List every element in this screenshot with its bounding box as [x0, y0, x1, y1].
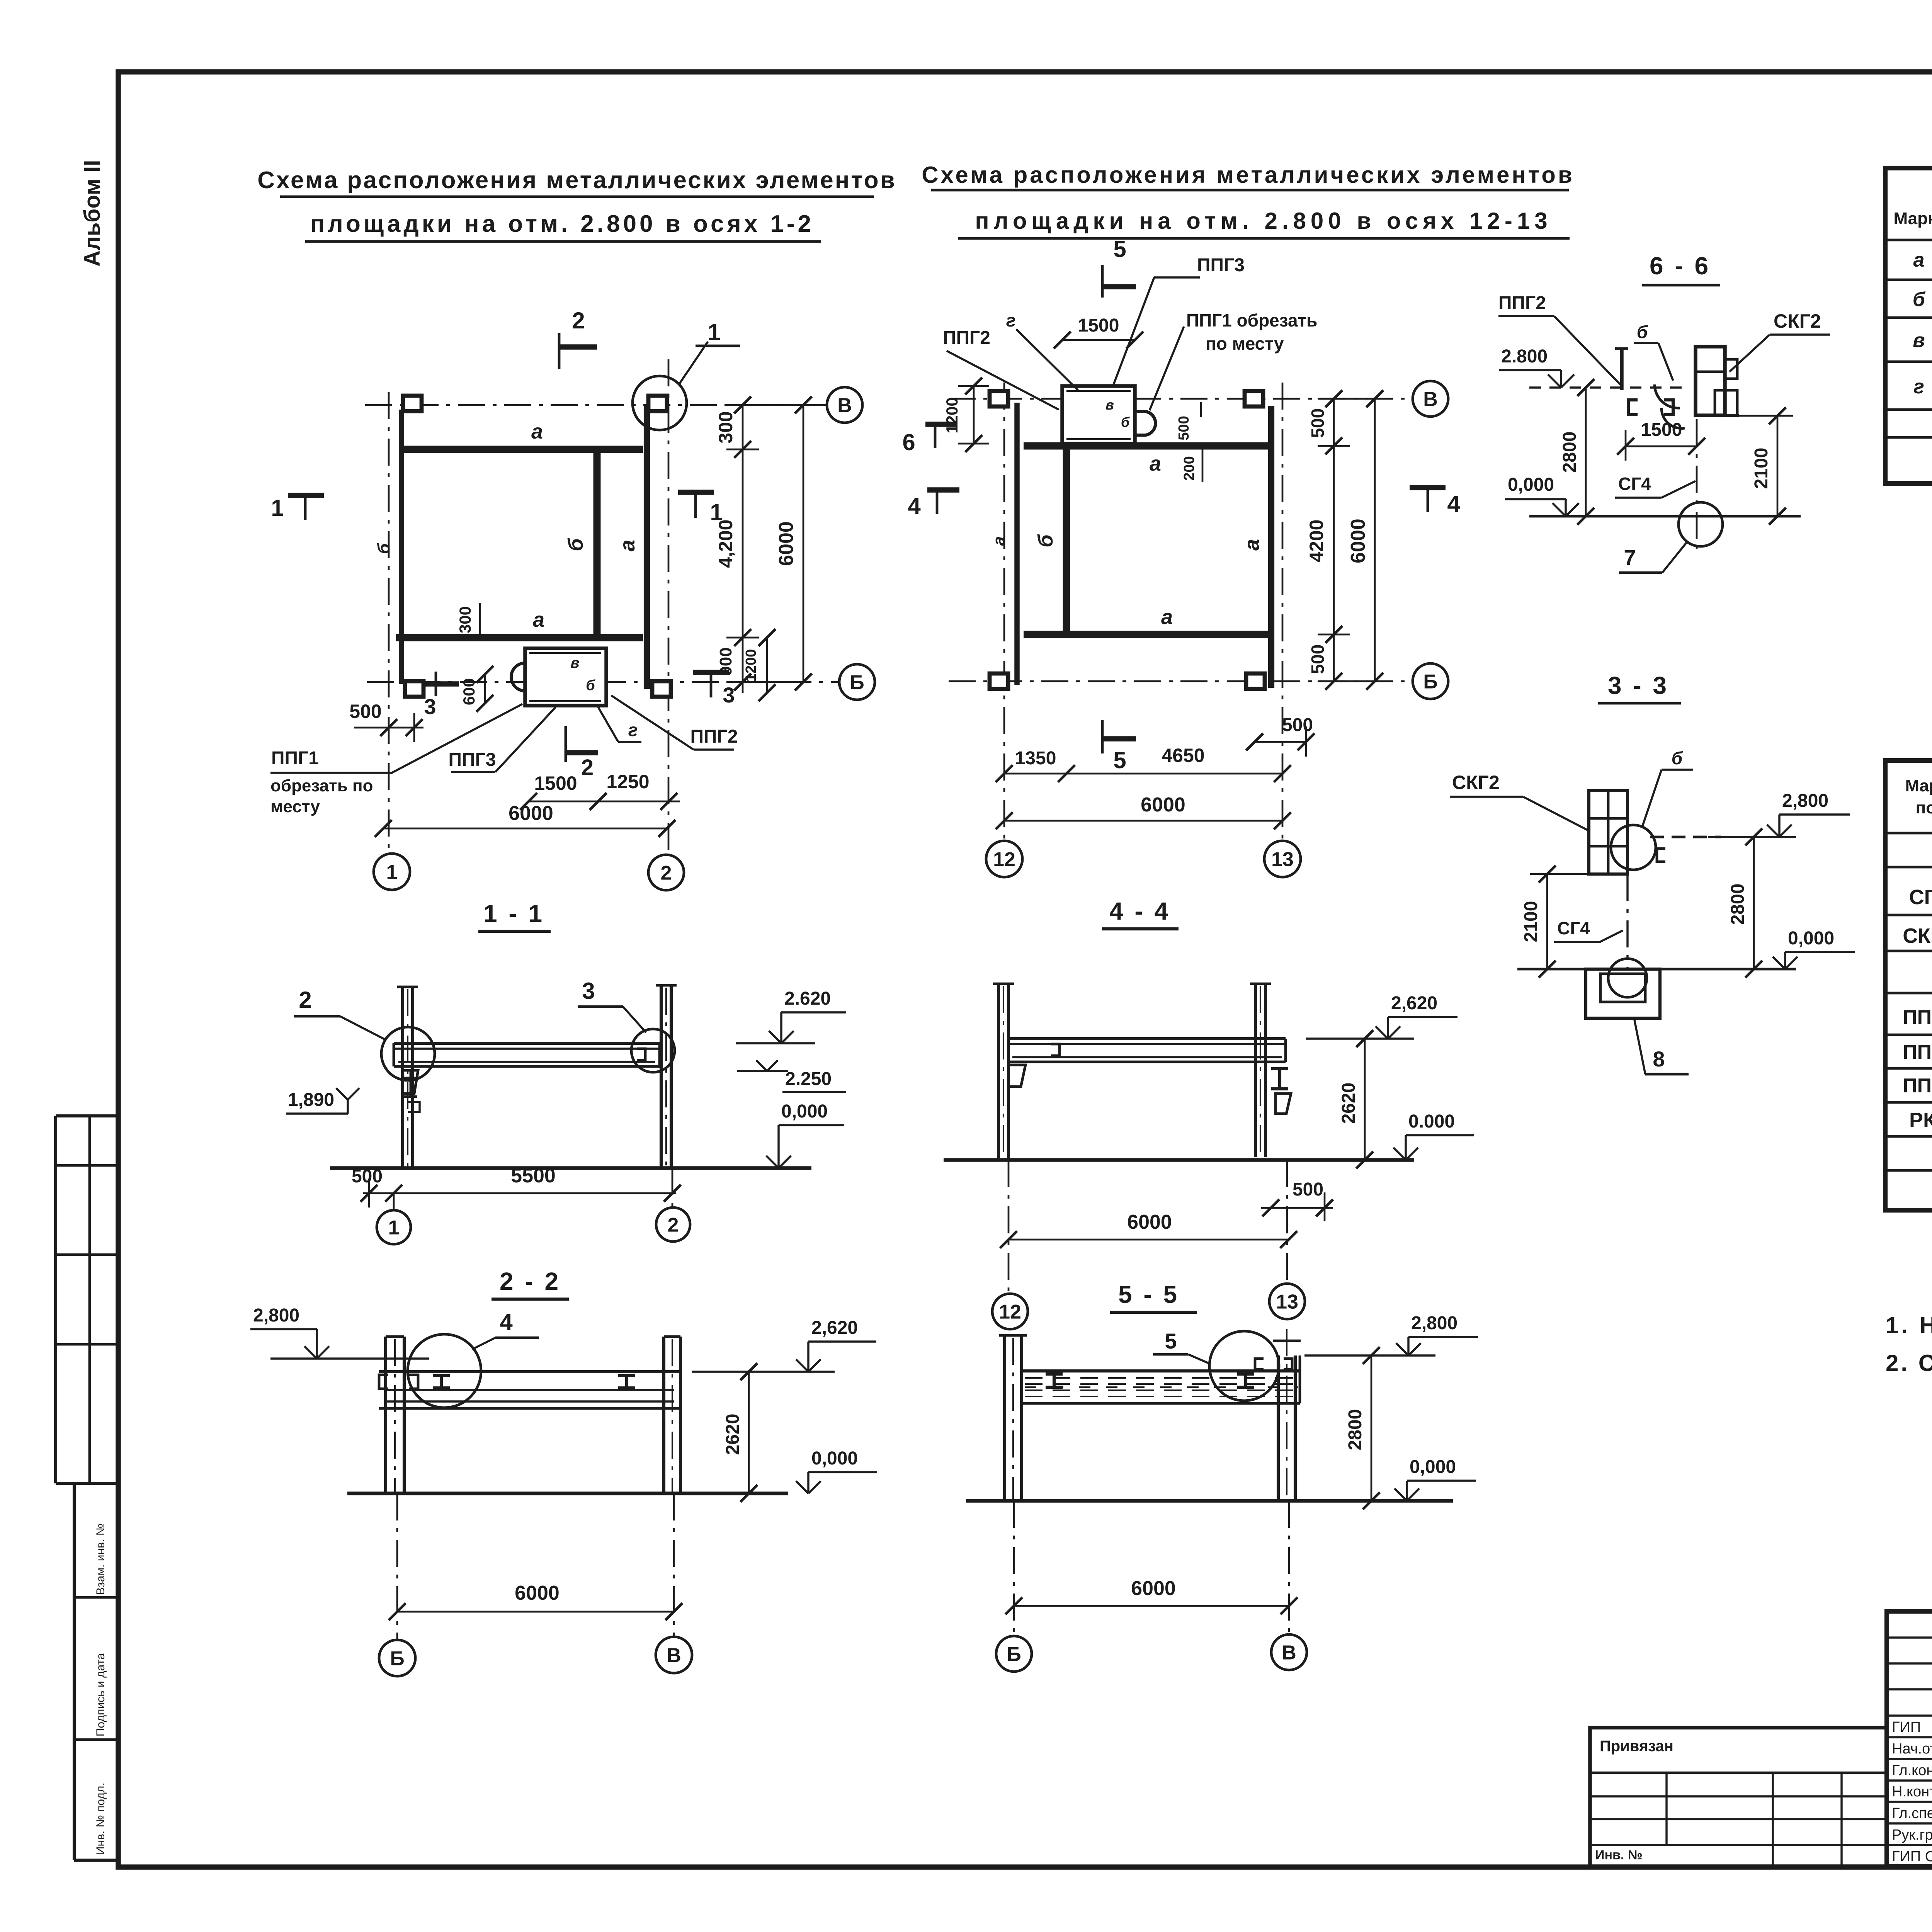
svg-text:0,000: 0,000 — [781, 1101, 828, 1122]
section 1-1: console РК1 under left deck end — [403, 1070, 418, 1094]
section 2-2: deck I-beam (right) — [618, 1376, 635, 1388]
svg-text:РК 1: РК 1 — [1909, 1109, 1932, 1132]
section 2-2: platform deck — [379, 1370, 679, 1373]
plan 12-13: axis line 13 — [1282, 383, 1284, 842]
plan 1-2: column at 2/Б — [652, 681, 671, 697]
section 1-1: channel end at right deck — [637, 1049, 645, 1060]
svg-text:Взам. инв. №: Взам. инв. № — [94, 1523, 107, 1595]
section 1-1: axis bubble 1 — [393, 1193, 395, 1209]
svg-text:5500: 5500 — [511, 1165, 556, 1187]
plan 12-13: section mark 5 (bottom) — [1101, 720, 1104, 753]
svg-text:а: а — [1150, 452, 1161, 475]
plan 12-13: leader ППГ1 обрезать по месту — [1150, 327, 1184, 410]
section 6-6: deck edge arc — [1655, 384, 1680, 408]
svg-text:СГ4: СГ4 — [1618, 474, 1651, 494]
svg-text:2 - 2: 2 - 2 — [500, 1267, 561, 1295]
section 3-3: footing outer — [1586, 969, 1660, 1018]
svg-text:В: В — [837, 395, 852, 417]
section 2-2: left column — [384, 1337, 387, 1493]
svg-text:2,800: 2,800 — [1411, 1313, 1458, 1333]
section 3-3: footing inner — [1600, 974, 1645, 1002]
svg-text:а: а — [1913, 249, 1925, 271]
plan 1-2: left railing line — [399, 410, 404, 684]
section 3-3: beam dashes at level 2.800 — [1650, 836, 1721, 838]
section 1-1: right column — [660, 985, 663, 1168]
plan 1-2: leader ППГ1 обрезать по месту — [392, 704, 522, 773]
svg-text:а: а — [1240, 539, 1264, 551]
plan 12-13: dim 1200 (left) — [973, 386, 975, 444]
section 1-1: platform deck — [394, 1042, 660, 1045]
svg-text:Привязан: Привязан — [1600, 1738, 1673, 1755]
plan 12-13: axis line Б — [949, 680, 1413, 682]
svg-text:1: 1 — [388, 1217, 400, 1239]
specification table: horizontal rules — [1885, 832, 1932, 835]
section 1-1: level mark 2.250 (right) — [737, 1070, 788, 1072]
plan 12-13: axis bubble 13 — [1264, 841, 1301, 877]
svg-text:Схема расположения металлическ: Схема расположения металлических элемент… — [922, 162, 1575, 188]
svg-text:Нач.отд.: Нач.отд. — [1892, 1741, 1932, 1757]
section 4-4: dim 2620 — [1364, 1039, 1366, 1160]
section 4-4: dim 500 (below right column) — [1261, 1207, 1333, 1209]
section 4-4: axis bubble 12 — [1008, 1160, 1010, 1293]
svg-text:Инв. №: Инв. № — [1595, 1848, 1643, 1862]
plan 12-13: axis bubble В — [1413, 381, 1448, 417]
svg-text:0,000: 0,000 — [1788, 928, 1834, 949]
section 6-6: ground level line — [1529, 515, 1801, 518]
svg-text:обрезать по: обрезать по — [270, 776, 373, 795]
plan 12-13: axis line 12 — [1003, 383, 1005, 842]
svg-text:Подпись и дата: Подпись и дата — [94, 1653, 107, 1736]
svg-text:6000: 6000 — [515, 1582, 560, 1604]
svg-text:2,800: 2,800 — [253, 1305, 299, 1326]
plan 1-2: dim line 6000 (right outer, В-Б) — [803, 405, 804, 682]
svg-text:500: 500 — [1293, 1179, 1323, 1200]
section 4-4: deck channel at left end — [1051, 1044, 1060, 1056]
svg-text:2100: 2100 — [1751, 448, 1772, 489]
section 2-2: dim 2620 — [748, 1372, 750, 1493]
svg-text:4,200: 4,200 — [715, 519, 736, 568]
svg-text:а: а — [533, 608, 544, 631]
svg-text:7: 7 — [1624, 545, 1636, 570]
section 5-5: callout circle 5 — [1209, 1331, 1279, 1401]
svg-text:6: 6 — [902, 429, 915, 455]
svg-text:Б: Б — [850, 672, 864, 694]
svg-text:1250: 1250 — [606, 771, 649, 793]
section 6-6: dim 1500 — [1626, 446, 1697, 447]
svg-text:Б: Б — [1007, 1643, 1021, 1666]
plan 12-13: right dim line 6000 — [1374, 399, 1376, 681]
section 3-3: dim 2100 (left) — [1546, 874, 1548, 969]
svg-text:Марка: Марка — [1893, 209, 1932, 228]
plan 12-13: platform plate (hatched) with manhole — [1062, 386, 1135, 444]
svg-text:б: б — [1913, 288, 1926, 311]
svg-text:б: б — [1034, 534, 1057, 548]
svg-text:1 - 1: 1 - 1 — [483, 900, 544, 927]
svg-text:по месту: по месту — [1206, 333, 1284, 354]
section 6-6: platform level line (dashed) — [1529, 386, 1689, 388]
svg-text:а: а — [1161, 605, 1173, 629]
svg-text:500: 500 — [1308, 408, 1328, 438]
svg-text:а: а — [616, 540, 639, 551]
section 2-2: rail channel on left column — [379, 1375, 388, 1389]
svg-text:2,800: 2,800 — [1782, 791, 1828, 811]
section 5-5: axis bubble Б — [1013, 1501, 1015, 1636]
plan 1-2: column at 1/В — [403, 396, 422, 411]
section 2-2: callout circle 4 — [408, 1334, 481, 1408]
svg-text:1,890: 1,890 — [288, 1090, 334, 1110]
svg-text:6000: 6000 — [1131, 1577, 1176, 1600]
section 2-2: axis bubble В — [673, 1493, 675, 1637]
plan 1-2: column at 2/В — [648, 396, 667, 411]
svg-text:1: 1 — [707, 319, 720, 345]
svg-text:Гл.констр: Гл.констр — [1892, 1762, 1932, 1779]
svg-text:1350: 1350 — [1015, 748, 1056, 769]
section 5-5: dim 2800 — [1371, 1355, 1372, 1501]
svg-text:2800: 2800 — [1728, 884, 1748, 925]
svg-text:6000: 6000 — [1347, 519, 1369, 563]
svg-text:6000: 6000 — [509, 802, 553, 825]
plan 1-2: leader г — [598, 707, 618, 742]
svg-text:4 - 4: 4 - 4 — [1109, 897, 1170, 925]
svg-text:ППГ3: ППГ3 — [1197, 255, 1245, 276]
section 1-1: callout circle 2 (left) — [381, 1027, 435, 1080]
specification table: outer border — [1885, 760, 1932, 1210]
svg-text:поз: поз — [1916, 798, 1932, 817]
section 2-2: ground line — [347, 1492, 788, 1495]
svg-text:500: 500 — [1308, 645, 1328, 674]
plan 1-2: axis line 1 (vertical) — [388, 392, 390, 855]
section 4-4: platform deck — [1009, 1037, 1286, 1040]
plan 12-13: leader ППГ3 (top) — [1113, 277, 1154, 386]
svg-text:0,000: 0,000 — [1508, 474, 1554, 495]
left margin vertical stamp box (Взам.инв / Подпись и дата / Инв.N подл.) — [74, 1482, 118, 1485]
svg-text:1: 1 — [386, 861, 398, 884]
svg-text:5: 5 — [1113, 236, 1126, 262]
plan 12-13: beam б (vertical) — [1063, 448, 1070, 634]
plan 1-2: axis bubble 1 — [374, 854, 410, 890]
section 5-5: top rail channels at right end — [1255, 1359, 1264, 1369]
svg-text:б: б — [1637, 322, 1648, 342]
svg-text:Инв. № подл.: Инв. № подл. — [94, 1782, 107, 1855]
section 2-2: right column — [662, 1337, 665, 1493]
section 1-1: dim 500/5500 — [363, 1192, 676, 1194]
svg-text:2620: 2620 — [1338, 1083, 1359, 1124]
title block left extension: Привязан box — [1590, 1728, 1887, 1866]
svg-text:а: а — [990, 536, 1009, 546]
svg-text:6000: 6000 — [775, 521, 798, 566]
svg-text:2. Общие указания даны на лист: 2. Общие указания даны на листе 1. — [1886, 1350, 1932, 1376]
svg-text:3: 3 — [582, 978, 595, 1004]
svg-text:площадки на отм. 2.800 в осях: площадки на отм. 2.800 в осях 12-13 — [975, 208, 1552, 234]
section 6-6: column with СКГ2 railing — [1696, 347, 1725, 415]
section 5-5: platform deck (hatched) — [1022, 1369, 1300, 1372]
svg-text:2.620: 2.620 — [784, 988, 831, 1009]
svg-text:ГИП: ГИП — [1892, 1719, 1921, 1735]
plan 12-13: left railing line — [1014, 403, 1020, 685]
section 1-1: callout circle 3 (right) — [631, 1029, 675, 1072]
svg-text:В: В — [1282, 1642, 1296, 1664]
svg-text:б: б — [374, 543, 393, 554]
plan 1-2: dim 1500 / 1250 (below detail) — [529, 801, 680, 803]
svg-text:Рук.гр.: Рук.гр. — [1892, 1827, 1932, 1843]
title block left extension: grid — [1590, 1795, 1887, 1797]
plan 12-13: column at 13/Б — [1246, 673, 1265, 689]
svg-text:0,000: 0,000 — [811, 1448, 858, 1469]
section 6-6: deck channel sections — [1628, 400, 1638, 415]
plan 1-2: axis bubble 2 — [648, 855, 684, 890]
svg-text:2800: 2800 — [1345, 1409, 1366, 1451]
svg-text:ППГ2: ППГ2 — [943, 328, 990, 348]
section 4-4: dim 6000 — [1009, 1239, 1289, 1241]
svg-text:месту: месту — [270, 797, 320, 816]
svg-text:СКГ2: СКГ2 — [1774, 310, 1821, 332]
svg-text:СГ 4: СГ 4 — [1909, 886, 1932, 909]
section 3-3: footing node circle 8 — [1608, 959, 1647, 997]
svg-text:б: б — [1121, 414, 1130, 430]
left margin small table — [56, 1114, 118, 1117]
plan 12-13: column at 13/В — [1245, 391, 1263, 406]
plan 1-2: detail callout circle 1 around column 2/В — [633, 376, 687, 430]
section 6-6: dim 2800 (left) — [1585, 388, 1587, 516]
svg-text:СКГ 2: СКГ 2 — [1903, 924, 1932, 947]
svg-text:В: В — [1423, 388, 1438, 411]
section 6-6: anchor node circle 7 — [1679, 502, 1723, 546]
section 1-1: ground line — [330, 1166, 811, 1170]
svg-text:600: 600 — [460, 678, 478, 705]
section 5-5: axis bubble В — [1288, 1501, 1290, 1634]
svg-text:ППГ 1: ППГ 1 — [1903, 1075, 1932, 1097]
svg-text:2.800: 2.800 — [1501, 346, 1548, 367]
svg-text:2800: 2800 — [1560, 432, 1580, 473]
svg-text:в: в — [1105, 397, 1114, 413]
svg-text:4: 4 — [500, 1309, 513, 1335]
section 4-4: console under left column — [1009, 1065, 1026, 1087]
svg-text:СГ4: СГ4 — [1557, 918, 1590, 938]
title block: signature rows (upper empty) — [1887, 1636, 1932, 1638]
plan 1-2: dim 500 (bottom left) — [354, 727, 423, 729]
plan 1-2: section mark 3 (right) — [693, 670, 729, 675]
plan 12-13: axis bubble Б — [1413, 663, 1448, 699]
plan 1-2: section mark 2 (bottom) — [565, 726, 567, 762]
svg-text:ППГ1: ППГ1 — [271, 748, 319, 769]
svg-text:1500: 1500 — [1078, 315, 1119, 336]
plan 12-13: column at 12/В — [990, 391, 1008, 406]
svg-text:4650: 4650 — [1162, 745, 1204, 766]
svg-text:2: 2 — [668, 1214, 679, 1236]
plan 1-2: platform plate г (hatched rect with manhole) — [525, 648, 606, 706]
svg-text:Б: Б — [1423, 671, 1437, 693]
plan 1-2: dim 600 at detail — [484, 674, 486, 703]
svg-text:Схема расположения металлическ: Схема расположения металлических элемент… — [257, 167, 896, 194]
svg-text:4: 4 — [1447, 491, 1460, 517]
plan 1-2: dim 300 at detail — [479, 603, 481, 638]
svg-text:500: 500 — [352, 1166, 383, 1187]
svg-text:8: 8 — [1653, 1047, 1665, 1071]
plan 1-2: axis line Б — [367, 681, 840, 683]
svg-text:б: б — [586, 677, 595, 694]
section 1-1: axis bubble 2 — [672, 1168, 673, 1206]
svg-text:300: 300 — [456, 606, 474, 633]
svg-text:4: 4 — [908, 493, 921, 519]
svg-text:СКГ2: СКГ2 — [1452, 772, 1500, 793]
svg-text:а: а — [531, 420, 543, 443]
svg-text:2100: 2100 — [1521, 901, 1541, 942]
plan 12-13: axis bubble 12 — [986, 841, 1022, 877]
section 4-4: axis bubble 13 — [1286, 1160, 1288, 1283]
section 5-5: left column — [1003, 1335, 1006, 1501]
svg-text:Марка: Марка — [1905, 776, 1932, 795]
svg-text:ППГ2: ППГ2 — [1498, 293, 1546, 313]
svg-text:ППГ 2: ППГ 2 — [1903, 1006, 1932, 1029]
svg-text:2620: 2620 — [723, 1414, 743, 1455]
section 3-3: dim 2800 — [1753, 837, 1755, 969]
svg-text:ППГ 3: ППГ 3 — [1903, 1041, 1932, 1063]
section 2-2: axis bubble Б — [396, 1493, 398, 1640]
svg-text:900: 900 — [716, 647, 735, 675]
svg-text:1500: 1500 — [534, 772, 577, 794]
plan 12-13: dim 1350 / 4650 (bottom) — [1004, 773, 1282, 775]
plan 1-2: section mark 1 (right) — [678, 490, 714, 495]
svg-text:3: 3 — [723, 683, 735, 707]
svg-text:500: 500 — [1176, 416, 1192, 440]
svg-text:ППГ3: ППГ3 — [449, 750, 496, 770]
section 5-5: ground line — [966, 1499, 1453, 1503]
title block: outer border — [1887, 1611, 1932, 1866]
plan 1-2: right railing line а — [644, 405, 650, 689]
section 4-4: console + I-beam at right overhang — [1271, 1069, 1288, 1089]
svg-text:1. Настоящий лист рассматриват: 1. Настоящий лист рассматривать совместн… — [1886, 1312, 1932, 1338]
svg-text:1200: 1200 — [743, 649, 759, 682]
svg-text:1: 1 — [271, 495, 284, 521]
svg-text:13: 13 — [1276, 1291, 1298, 1313]
svg-text:ППГ2: ППГ2 — [690, 726, 738, 747]
plan 12-13: column at 12/Б — [990, 673, 1008, 689]
svg-text:2: 2 — [299, 987, 311, 1013]
svg-text:2: 2 — [661, 862, 672, 884]
section 1-1: left column (elevation) — [401, 987, 404, 1168]
svg-text:4200: 4200 — [1306, 519, 1327, 562]
svg-text:в: в — [571, 655, 580, 671]
svg-text:ГИП С.: ГИП С. — [1892, 1849, 1932, 1865]
svg-text:6000: 6000 — [1127, 1211, 1172, 1233]
plan 1-2: dim 1200 (right inner, lower) — [766, 638, 768, 693]
section 3-3: ground line — [1517, 968, 1796, 971]
svg-text:0,000: 0,000 — [1410, 1457, 1456, 1477]
plan 12-13: dim 1500 (top) — [1062, 339, 1135, 341]
plan 12-13: beam а (top) — [1024, 442, 1270, 450]
elements list table: outer border — [1885, 168, 1932, 483]
plan 1-2: axis line 2 — [668, 359, 670, 855]
svg-text:б: б — [1672, 748, 1683, 768]
section 5-5: deck I-beam (left) — [1046, 1374, 1063, 1387]
svg-text:200: 200 — [1181, 456, 1197, 480]
svg-text:0.000: 0.000 — [1408, 1111, 1455, 1132]
section 4-4: left column — [997, 984, 1000, 1160]
plan 12-13: leader ППГ2 (left) — [947, 351, 1059, 410]
svg-text:6 - 6: 6 - 6 — [1650, 252, 1711, 280]
section 6-6: vertical axis of ladder (dash-dot) — [1696, 419, 1698, 549]
plan 1-2: leader ППГ3 — [495, 707, 556, 772]
plan 1-2: section mark 3 (left) — [435, 672, 437, 696]
plan 1-2: beam а (bottom) — [396, 634, 643, 641]
svg-text:г: г — [1913, 376, 1924, 398]
section 5-5: right column — [1277, 1355, 1280, 1501]
svg-text:5: 5 — [1113, 747, 1126, 773]
section 2-2: dim 6000 — [397, 1611, 674, 1613]
svg-text:Альбом II: Альбом II — [80, 160, 105, 267]
plan 12-13: right railing line — [1268, 406, 1274, 688]
plan 1-2: column at 1/Б — [405, 681, 423, 697]
svg-text:12: 12 — [999, 1301, 1021, 1323]
svg-text:5 - 5: 5 - 5 — [1118, 1281, 1179, 1308]
svg-text:Гл.спец.: Гл.спец. — [1892, 1805, 1932, 1821]
svg-text:12: 12 — [993, 849, 1015, 871]
plan 1-2: axis bubble Б — [839, 664, 875, 700]
svg-text:г: г — [628, 720, 638, 740]
plan 1-2: axis bubble В — [827, 387, 862, 423]
section 3-3: level line at 2.800 (right) — [1708, 836, 1796, 838]
svg-text:300: 300 — [715, 411, 736, 443]
svg-text:Н.контр.: Н.контр. — [1892, 1784, 1932, 1800]
plan 12-13: dim 500 (bottom right) — [1255, 741, 1306, 743]
title block: signature rows (names) — [1887, 1714, 1932, 1716]
plan 1-2: dim line 300/4200/900 (right inner) — [742, 405, 744, 693]
svg-text:500: 500 — [349, 701, 381, 722]
plan 12-13: axis line В — [949, 398, 1413, 400]
svg-text:1500: 1500 — [1641, 420, 1682, 440]
svg-text:3 - 3: 3 - 3 — [1608, 672, 1669, 699]
svg-text:2,620: 2,620 — [811, 1318, 858, 1338]
svg-text:2: 2 — [581, 755, 594, 780]
section 3-3: node circle at 2.800 — [1611, 825, 1656, 870]
plan 1-2: section mark 2 (top) — [558, 333, 561, 369]
plan 1-2: beam а (top) — [401, 446, 643, 453]
svg-text:1200: 1200 — [943, 397, 961, 433]
plan 1-2: dim 6000 (bottom) — [383, 828, 667, 830]
section 6-6: dim 2100 (right) — [1777, 416, 1779, 516]
svg-text:г: г — [1006, 310, 1016, 330]
section 6-6: railing post — [1620, 348, 1624, 390]
svg-text:2.250: 2.250 — [785, 1069, 832, 1089]
section 3-3: ladder СГ4 (grid) — [1589, 791, 1628, 874]
section 2-2: deck I-beam (left) — [433, 1376, 450, 1388]
plan 12-13: section mark 4 (right) — [1410, 485, 1446, 490]
section 3-3: ladder stringer axis down to footing — [1626, 874, 1628, 978]
plan 1-2: axis line В (horizontal dash-dot) — [365, 404, 827, 406]
svg-text:В: В — [667, 1645, 681, 1667]
svg-text:3: 3 — [424, 694, 436, 719]
svg-text:б: б — [564, 538, 587, 551]
svg-text:ППГ1 обрезать: ППГ1 обрезать — [1186, 310, 1317, 330]
svg-text:5: 5 — [1165, 1329, 1177, 1353]
svg-text:6000: 6000 — [1141, 794, 1185, 816]
plan 12-13: beam а (bottom) — [1024, 631, 1270, 638]
svg-text:13: 13 — [1271, 849, 1294, 871]
plan 12-13: leader г (top) — [1016, 329, 1078, 390]
svg-text:2,620: 2,620 — [1391, 993, 1437, 1014]
svg-text:500: 500 — [1282, 715, 1313, 735]
svg-text:2: 2 — [572, 308, 585, 333]
section 4-4: ground line — [944, 1158, 1414, 1162]
svg-text:в: в — [1913, 329, 1925, 352]
section 4-4: right column — [1254, 984, 1257, 1157]
plan 12-13: dim 6000 (bottom) — [1004, 820, 1282, 822]
plan 1-2: beam б (vertical middle) — [594, 451, 601, 638]
plan 12-13: right dim line 500/4200/500 — [1333, 399, 1335, 681]
svg-text:площадки на отм. 2.800 в осях: площадки на отм. 2.800 в осях 1-2 — [310, 211, 814, 237]
section 5-5: deck I-beam (right) — [1237, 1374, 1254, 1387]
svg-text:Б: Б — [390, 1648, 404, 1670]
